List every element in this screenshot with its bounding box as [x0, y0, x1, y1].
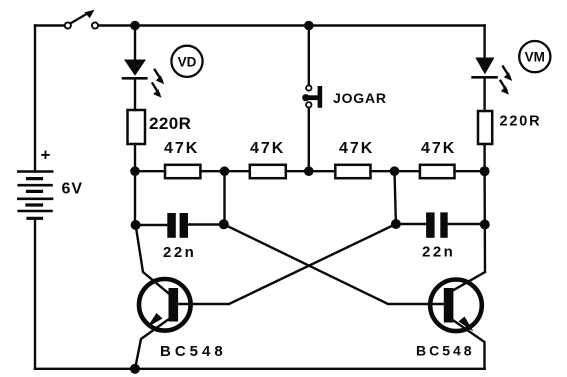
- wire cross-couple C2left to Q1 base: [178, 224, 396, 304]
- svg-text:BC548: BC548: [160, 343, 227, 360]
- svg-text:47K: 47K: [164, 140, 199, 157]
- svg-text:VM: VM: [525, 50, 545, 65]
- resistor R1 47K: [165, 165, 200, 178]
- wire row seg3: [286, 170, 336, 172]
- svg-text:47K: 47K: [339, 140, 374, 157]
- svg-text:22n: 22n: [422, 244, 455, 261]
- wire vertical left branch to cap: [134, 171, 136, 225]
- wire row seg5: [455, 170, 485, 172]
- svg-text:22n: 22n: [163, 244, 196, 261]
- battery B1 6V: [18, 172, 52, 219]
- wire row seg1: [135, 170, 165, 172]
- capacitor C2 22n: [396, 212, 485, 237]
- node row 2: [220, 166, 230, 176]
- svg-text:220R: 220R: [500, 114, 542, 130]
- switch S1: [65, 10, 98, 29]
- wire right vertical row to cap: [483, 171, 486, 224]
- svg-text:47K: 47K: [421, 140, 456, 157]
- wire top rail right segment: [98, 24, 484, 26]
- wire left vertical battery to bottom: [34, 218, 36, 368]
- node row right: [480, 166, 490, 176]
- capacitor C1 22n: [136, 213, 224, 238]
- wire cross-couple C1right to Q2 base: [224, 224, 444, 304]
- svg-text:JOGAR: JOGAR: [333, 90, 387, 106]
- node row 4: [390, 166, 400, 176]
- label VM circle: [519, 41, 550, 72]
- svg-text:47K: 47K: [250, 140, 285, 157]
- LED VM: [473, 58, 513, 95]
- resistor R4 47K: [420, 165, 455, 178]
- node cap C1 right: [219, 219, 229, 229]
- node row center: [304, 166, 314, 176]
- resistor R2 47K: [250, 165, 286, 178]
- svg-text:VD: VD: [178, 54, 197, 69]
- resistor 220R left: [128, 110, 146, 144]
- wire 220R to row: [134, 144, 136, 171]
- svg-text:+: +: [41, 146, 51, 165]
- svg-text:6V: 6V: [62, 181, 84, 198]
- node top JOGAR junction: [304, 21, 314, 31]
- wire JOGAR lower: [308, 108, 310, 171]
- wire LED to 220R: [134, 78, 136, 110]
- resistor 220R right: [478, 111, 492, 144]
- svg-text:220R: 220R: [149, 114, 191, 133]
- svg-text:BC548: BC548: [416, 343, 475, 359]
- wire vertical node2 to cap left: [223, 171, 225, 224]
- node emitter Q1 bottom: [130, 364, 140, 374]
- wire JOGAR upper: [308, 26, 310, 86]
- transistor Q2 BC548: [430, 225, 485, 369]
- LED VD: [123, 60, 164, 98]
- transistor Q1 BC548: [136, 225, 191, 366]
- node cap C2 right: [480, 220, 490, 230]
- resistor R3 47K: [335, 165, 370, 178]
- wire row seg4: [371, 170, 420, 172]
- label VD circle: [171, 46, 202, 77]
- node top-left junction: [130, 21, 140, 31]
- wire LED VD branch: [134, 26, 136, 60]
- node cap C1 left: [131, 220, 141, 230]
- wire row seg2: [200, 170, 249, 172]
- wire bottom rail: [35, 368, 485, 370]
- wire left vertical to battery: [34, 26, 36, 172]
- node row left: [130, 166, 140, 176]
- pushbutton JOGAR: [302, 85, 322, 108]
- wire LED VM to 220R: [483, 77, 485, 111]
- wire vertical node4 to cap right: [395, 171, 396, 224]
- wire 220R right to row: [483, 144, 485, 171]
- wire right vertical from top: [483, 26, 485, 58]
- wire top rail left segment: [35, 24, 65, 26]
- node cap C2 left: [391, 219, 401, 229]
